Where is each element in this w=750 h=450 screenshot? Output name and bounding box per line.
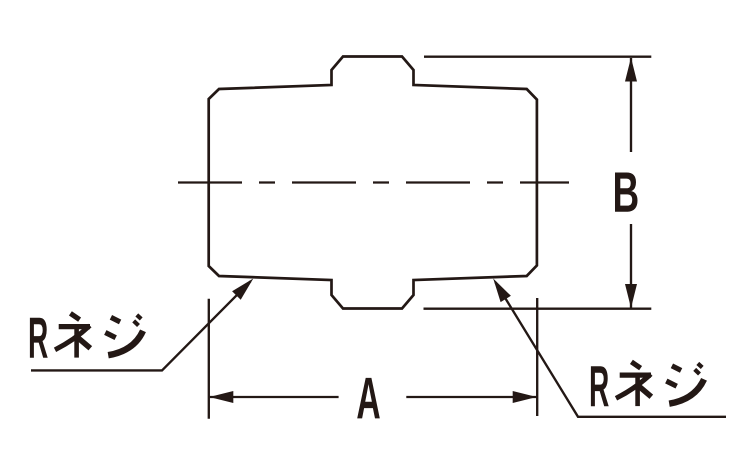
fitting body outline (hex nipple profile) <box>209 57 537 309</box>
arrowhead leader right (points up-left) <box>493 279 511 303</box>
label Rネジ left <box>30 313 143 357</box>
extension line A right <box>536 298 538 416</box>
leader line left (Rネジ) <box>31 281 251 370</box>
arrowhead leader left (points up-right) <box>232 279 253 300</box>
extension line B top <box>424 56 651 58</box>
dimension line A right segment <box>406 396 536 398</box>
dimension line B upper segment <box>630 58 632 152</box>
centerline (chain line) <box>178 181 569 183</box>
arrowhead A right <box>513 391 537 403</box>
dimension line A left segment <box>209 396 338 398</box>
extension line B bottom <box>424 308 652 310</box>
leader line right (Rネジ) <box>496 282 727 417</box>
arrowhead A left <box>209 391 233 403</box>
dimension line B lower segment <box>630 224 632 308</box>
extension line A left <box>208 299 210 419</box>
dimension letter B <box>615 173 638 212</box>
arrowhead B bottom <box>625 284 637 308</box>
arrowhead B top <box>625 58 637 82</box>
label Rネジ right <box>591 362 704 406</box>
dimension letter A <box>357 378 380 419</box>
